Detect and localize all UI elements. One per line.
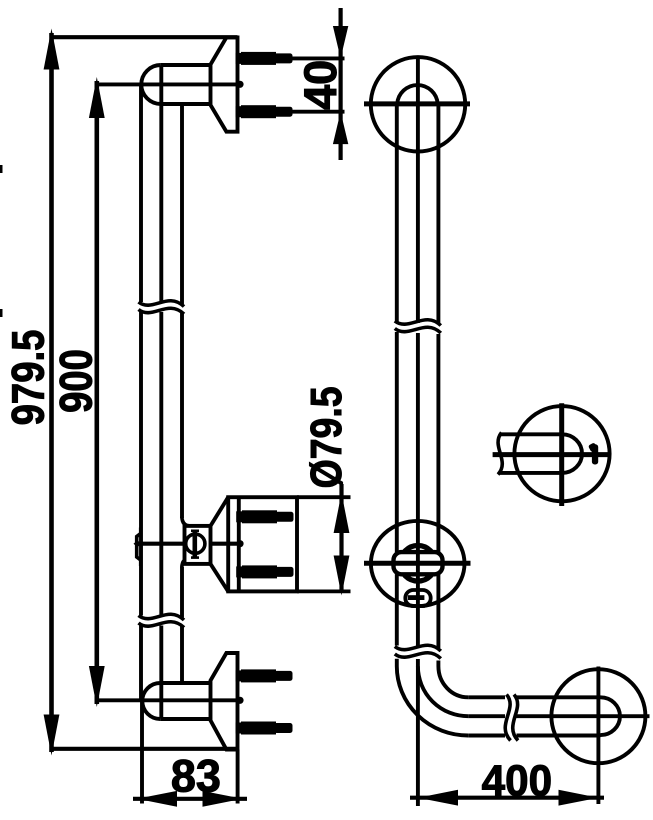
right view: bottom flange circle bbox=[551, 669, 645, 763]
svg-text:40: 40 bbox=[295, 60, 346, 110]
dimension 83 line bbox=[133, 791, 247, 807]
svg-text:Ø79.5: Ø79.5 bbox=[301, 386, 351, 488]
middle flange set screw dot bbox=[236, 540, 243, 547]
bottom flange: stub tube edges bbox=[160, 681, 210, 685]
middle flange face line bbox=[237, 497, 241, 591]
middle flange bolt lower bbox=[236, 565, 293, 578]
dimension 979.5 line bbox=[44, 29, 60, 756]
horizontal tube break lines bbox=[505, 695, 518, 741]
detail view: tube cap arc bbox=[562, 434, 582, 473]
detail view: break line bbox=[498, 433, 502, 475]
middle bracket bolt bbox=[193, 530, 198, 558]
horizontal tube bottom edge bbox=[468, 734, 600, 738]
top flange: bolt upper bbox=[236, 52, 293, 65]
top flange: stub tube edges bbox=[161, 63, 211, 67]
middle bracket bbox=[185, 526, 211, 564]
bottom flange: plate bbox=[211, 653, 238, 750]
top flange: bolt lower bbox=[236, 105, 293, 118]
right view: oval slot bbox=[405, 590, 430, 606]
dimension 900 line bbox=[89, 77, 105, 707]
middle flange chamfer diagonals bbox=[211, 497, 229, 526]
detail view: crosshair vertical bbox=[559, 403, 564, 506]
right view: tube left edge bbox=[395, 104, 399, 646]
svg-text:900: 900 bbox=[51, 349, 102, 413]
right view: middle bracket bbox=[394, 552, 443, 574]
right view: middle crosshair vertical segment bbox=[416, 552, 420, 574]
right view: middle cap circle bbox=[400, 546, 436, 582]
middle joint collar bbox=[137, 528, 141, 567]
bend inner curve bbox=[438, 661, 468, 698]
dimension 40 line bbox=[333, 8, 348, 160]
middle flange cover bbox=[228, 497, 297, 591]
extension line bottom (979.5 / flange bottom) bbox=[50, 747, 238, 751]
bend outer curve bbox=[397, 659, 468, 736]
right view: bottom crosshair vertical / 400 ext bbox=[596, 667, 600, 805]
top flange: tube cap arc bbox=[141, 65, 161, 104]
right tube lower break lines bbox=[395, 645, 441, 658]
upper pipe break lines bbox=[139, 301, 185, 314]
bend middle curve bbox=[418, 666, 468, 716]
middle centerline bbox=[136, 542, 239, 546]
top flange: plate bbox=[211, 37, 238, 131]
left view: vertical tube right edge bbox=[180, 104, 184, 684]
bottom flange: bolt lower bbox=[236, 722, 293, 735]
dimension 83 extension lines bbox=[140, 701, 144, 804]
top flange: set screw dot bbox=[236, 81, 243, 88]
dimension 400 line bbox=[410, 790, 604, 806]
bottom flange: bolt upper bbox=[236, 669, 293, 682]
right view: top crosshair horizontal bbox=[364, 101, 470, 106]
extension line 900 top (tube centerline) bbox=[95, 82, 238, 86]
bottom flange: set screw dot bbox=[236, 697, 243, 704]
extension line top (979.5 / flange top) bbox=[50, 35, 238, 39]
dimension d79.5 line bbox=[334, 484, 350, 596]
horizontal tube middle line bbox=[468, 714, 649, 718]
extension line 900 bottom (tube centerline) bbox=[95, 698, 238, 702]
svg-text:979.5: 979.5 bbox=[3, 330, 54, 426]
right view: tube center line bbox=[416, 56, 420, 807]
detail view: set screw bbox=[588, 442, 598, 464]
svg-text:400: 400 bbox=[482, 757, 552, 806]
left view: vertical tube center line bbox=[159, 66, 163, 719]
middle bracket arm fillets bbox=[182, 517, 190, 526]
detail view: tube edges bbox=[500, 432, 562, 436]
detail view: flange circle bbox=[514, 406, 609, 501]
right tube upper break lines bbox=[395, 320, 441, 333]
lower pipe break lines bbox=[139, 614, 185, 627]
middle flange bolt upper bbox=[236, 510, 293, 523]
middle centerline end diamond bbox=[134, 540, 142, 547]
middle bracket pivot circle bbox=[186, 534, 205, 553]
dimension d79.5 extension lines bbox=[297, 495, 351, 499]
right view: oval slot bar bbox=[408, 595, 425, 600]
right view: middle crosshair horizontal bbox=[364, 561, 471, 566]
right view: top flange circle bbox=[371, 57, 465, 151]
bottom flange: tube cap arc bbox=[142, 683, 160, 719]
left view: vertical tube left edge bbox=[139, 85, 143, 701]
horizontal tube cap arc bbox=[601, 697, 620, 735]
horizontal tube top edge bbox=[468, 695, 600, 699]
svg-text:83: 83 bbox=[171, 751, 221, 802]
detail view: crosshair horizontal bbox=[493, 452, 610, 457]
edge artifact marks bbox=[0, 165, 3, 317]
right view: top tube cap arc bbox=[397, 85, 438, 104]
right view: tube right edge bbox=[436, 104, 440, 648]
dimension 40 extension lines bbox=[290, 56, 345, 60]
right view: middle flange ellipse bbox=[371, 521, 465, 606]
